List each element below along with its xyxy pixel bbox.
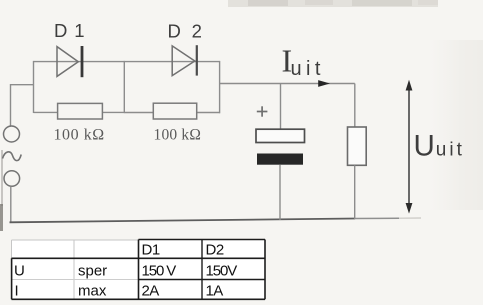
svg-text:D2: D2: [206, 242, 224, 259]
svg-text:100 kΩ: 100 kΩ: [54, 126, 105, 143]
wire capacitor branch upper: [280, 84, 282, 130]
wire right vertical of block 2: [219, 61, 221, 113]
diode D1: [57, 46, 82, 77]
voltage arrow U_uit: [406, 80, 413, 214]
wire lower branch of block 2: [124, 112, 219, 114]
wire load branch lower: [354, 165, 356, 219]
table cell 1A: [206, 283, 224, 300]
AC source tilde: [3, 152, 22, 161]
R1 value label 100 kOhm: [54, 126, 105, 143]
svg-text:uit: uit: [291, 58, 325, 80]
table cell max: [78, 283, 107, 300]
label U_uit: [414, 130, 465, 163]
capacitor C bottom plate: [257, 154, 303, 165]
svg-text:U: U: [414, 130, 435, 163]
svg-text:150V: 150V: [206, 262, 238, 279]
label D2: [168, 21, 205, 42]
wire left vertical of block 1: [33, 61, 35, 113]
svg-text:150 V: 150 V: [142, 262, 177, 279]
table cell 150V: [206, 262, 238, 279]
table cell sper: [78, 262, 107, 279]
table grid light lines: [12, 240, 139, 299]
svg-text:D1: D1: [142, 242, 160, 259]
svg-text:uit: uit: [436, 139, 465, 160]
terminal lower: [4, 171, 20, 187]
load resistor: [348, 127, 367, 165]
svg-text:1A: 1A: [206, 283, 224, 300]
label I_uit: [282, 42, 325, 80]
current arrow head I_uit: [318, 80, 330, 87]
R2 value label 100 kOhm: [154, 126, 202, 143]
wire top rail: [34, 61, 220, 63]
capacitor C top plate: [256, 129, 305, 142]
table background: [12, 240, 266, 299]
wire output rail: [220, 83, 355, 85]
terminal upper: [4, 126, 20, 142]
resistor R2: [153, 103, 196, 119]
svg-text:D 2: D 2: [168, 21, 205, 42]
svg-text:D 1: D 1: [54, 20, 86, 41]
label D1: [54, 20, 86, 41]
table grid black lines: [12, 240, 266, 300]
svg-text:2A: 2A: [142, 283, 160, 300]
table cell D1 header: [142, 242, 160, 259]
wire bottom rail: [10, 218, 422, 222]
wire AC source to block 1: [11, 85, 34, 126]
table cell I: [15, 283, 19, 300]
table cell 2A: [142, 283, 160, 300]
wire middle vertical junction: [123, 61, 125, 113]
svg-text:U: U: [14, 262, 25, 279]
wire lower terminal down: [10, 186, 12, 222]
wire lower branch of block 1: [34, 111, 125, 113]
svg-text:I: I: [15, 283, 19, 300]
table cell 150 V: [142, 262, 177, 279]
table cell D2 header: [206, 242, 224, 259]
svg-text:max: max: [78, 283, 107, 300]
svg-text:100 kΩ: 100 kΩ: [154, 126, 202, 143]
svg-text:sper: sper: [78, 262, 107, 279]
wire load branch upper: [354, 84, 356, 128]
table cell U: [14, 262, 25, 279]
diode D2: [172, 45, 197, 75]
resistor R1: [58, 103, 103, 119]
wire capacitor branch lower: [279, 165, 281, 220]
capacitor plus sign: [257, 106, 268, 116]
